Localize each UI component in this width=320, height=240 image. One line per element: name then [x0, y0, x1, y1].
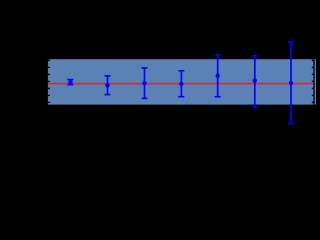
confidence band (axhspan) [48, 59, 316, 104]
errorbar point 4 [178, 71, 184, 97]
mean line (red axhline) [48, 83, 314, 85]
right spine ticks [312, 60, 314, 102]
right spine [313, 59, 315, 104]
left spine ticks [48, 60, 50, 102]
errorbar point 2 [105, 76, 111, 95]
errorbar point 3 [142, 68, 148, 99]
errorbar point 7 [288, 42, 294, 124]
errorbar point 5 [215, 55, 221, 97]
errorbar point 1 [67, 80, 73, 85]
errorbar point 6 [252, 56, 258, 107]
